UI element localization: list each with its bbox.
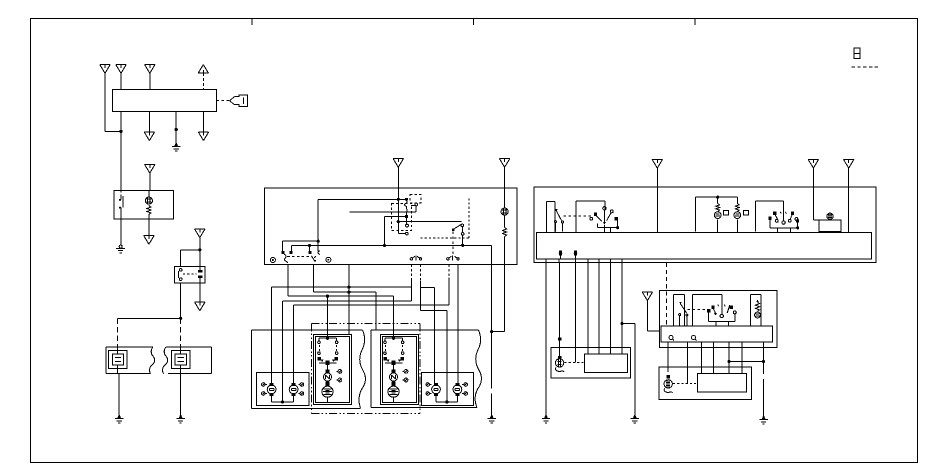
wire relay1 pin4 down bbox=[148, 219, 150, 236]
strip pin 2 bbox=[574, 250, 578, 259]
wire v-287.8 bbox=[287, 264, 289, 296]
cluster lamp bbox=[827, 213, 833, 219]
retract B wire bbox=[393, 365, 395, 371]
connector triangle T4 (up) bbox=[198, 65, 208, 74]
noise filter 2 box bbox=[162, 347, 211, 374]
contact arm A bbox=[281, 241, 283, 251]
wire relay2 pin4 down bbox=[199, 283, 201, 302]
side pin A2 bbox=[336, 378, 342, 382]
cluster2 sub-bus bbox=[770, 220, 799, 233]
wire w-575.5 bbox=[575, 263, 577, 363]
junction dot bbox=[347, 286, 350, 289]
retract A connector bbox=[326, 369, 330, 373]
indicator lamp 1 bbox=[270, 258, 275, 263]
noise filter 1 box bbox=[106, 347, 155, 374]
wire H2b bbox=[385, 215, 406, 217]
junction dot bbox=[620, 322, 623, 325]
wire w-610.5 bbox=[610, 263, 612, 354]
rr comp2 frame bbox=[693, 295, 722, 326]
headlamp bulb A1a bbox=[262, 383, 277, 396]
connector triangle T1 bbox=[100, 65, 110, 74]
contact square bbox=[405, 198, 408, 201]
wire V2 bbox=[384, 216, 386, 245]
retract relay box bbox=[659, 290, 777, 347]
switch1 dashed linkage bbox=[564, 215, 593, 217]
relay2 dashed linkage bbox=[183, 273, 197, 275]
junction dot bbox=[716, 196, 719, 199]
wire w-559.6 bbox=[559, 263, 561, 356]
keyhole pin 2 bbox=[692, 336, 697, 341]
lamp box A1 bbox=[257, 373, 309, 406]
wire w-701.4 bbox=[700, 347, 702, 373]
junction dot bbox=[397, 220, 400, 223]
beam lamp resistor bbox=[503, 215, 507, 264]
connector triangle T7 bbox=[145, 165, 155, 174]
relay2 contacts bbox=[179, 269, 182, 281]
wire T14 down bbox=[812, 168, 814, 220]
contact arm B bbox=[291, 245, 293, 251]
connector triangle T10 bbox=[195, 302, 205, 311]
comp3 frame bbox=[756, 201, 784, 232]
junction dot relay2 bbox=[198, 248, 201, 251]
wire V5 inside bbox=[491, 245, 493, 264]
wire T9 down bbox=[199, 238, 201, 267]
noise filter 1 inner bbox=[109, 347, 128, 374]
comp2 frame bbox=[576, 201, 605, 232]
rr lamp bbox=[755, 312, 761, 318]
ground G7 bbox=[631, 415, 639, 423]
sensor square 2 bbox=[743, 210, 748, 214]
noise filter bus bbox=[118, 317, 181, 319]
connector triangle T13 bbox=[652, 160, 662, 169]
switch arm E bbox=[455, 224, 464, 229]
connector triangle T14 bbox=[808, 160, 818, 169]
connector triangle T15 bbox=[844, 160, 854, 169]
retract shield bulb B bbox=[388, 384, 399, 397]
wire relay2 to bus bbox=[180, 283, 182, 318]
contact ring bbox=[406, 232, 409, 235]
relay2 capacitor bbox=[198, 266, 202, 283]
wire to boxB top bbox=[375, 292, 377, 330]
retract lamp N bbox=[324, 370, 332, 384]
retract relay B bbox=[384, 338, 405, 365]
motor box R inner bbox=[698, 374, 747, 393]
light switch cluster bbox=[590, 207, 618, 225]
dashed L-path bbox=[421, 198, 469, 238]
sensor square 1 bbox=[724, 210, 729, 214]
retract lamp H bbox=[390, 370, 398, 384]
motor L symbol bbox=[555, 356, 564, 372]
headlamp B outer box bbox=[371, 330, 481, 407]
wire to lampB1 bus bbox=[446, 310, 448, 402]
switch contact square bbox=[309, 251, 312, 254]
relay1 resistor wire bbox=[148, 215, 150, 220]
junction dot bbox=[326, 295, 329, 298]
wire pin5 down bbox=[148, 112, 150, 133]
connector triangle T6 bbox=[198, 132, 208, 141]
wire w-634.8 bbox=[634, 323, 636, 415]
wire H4 bus bbox=[292, 244, 492, 246]
row R1b bbox=[420, 287, 434, 289]
dashed linkage bbox=[287, 255, 309, 257]
wire T12 down bbox=[504, 167, 506, 188]
connector square bbox=[558, 337, 561, 340]
junction dot bbox=[445, 400, 448, 403]
junction dot bbox=[762, 360, 765, 363]
gauge frame bbox=[696, 197, 738, 232]
wire w-764.1 bbox=[763, 347, 765, 416]
motor box R bbox=[659, 367, 751, 400]
ignition switch box bbox=[113, 90, 217, 112]
retract unit B inner bbox=[383, 336, 417, 402]
turn switch cluster bbox=[769, 206, 800, 224]
wire v-457.8 bbox=[457, 264, 459, 385]
dashed wire v-420.4 bbox=[419, 264, 421, 281]
wire jog bbox=[729, 361, 764, 363]
wire to lampA1 bus bbox=[282, 301, 284, 402]
dashed box large bbox=[391, 204, 411, 231]
switch arm D bbox=[411, 203, 418, 212]
switch contact hook bbox=[318, 251, 320, 254]
wire jog bbox=[622, 322, 635, 324]
rr comp3 frame bbox=[751, 295, 761, 326]
rr switch cluster bbox=[707, 301, 736, 318]
wire T11 down bbox=[397, 167, 399, 188]
wire v-504.6 tail bbox=[490, 264, 505, 333]
wire w-599 bbox=[598, 263, 600, 354]
retract unit B outer bbox=[381, 334, 419, 404]
wire v-491.7 to ground bbox=[491, 264, 493, 415]
wire H1 bbox=[318, 198, 406, 200]
retract B connector bbox=[392, 369, 396, 373]
ground G8 bbox=[759, 416, 767, 424]
headlight switch box bbox=[265, 188, 517, 264]
wire w-687.7 bbox=[687, 347, 689, 383]
ground G3 bbox=[115, 415, 123, 423]
wire to lampB1a bbox=[434, 288, 436, 385]
rr resistor bbox=[756, 300, 760, 312]
relay1 coil lamp bbox=[145, 191, 152, 205]
wire v-420.4 lower bbox=[419, 281, 421, 310]
wire V4 bbox=[461, 227, 464, 246]
headlamp bulb B1b bbox=[453, 383, 468, 396]
wire jog relay2 bbox=[181, 249, 200, 251]
bottom contact pair 1 bbox=[410, 256, 422, 261]
frame tick 1 bbox=[251, 19, 253, 26]
row R2 bbox=[314, 291, 376, 293]
wire T16 down bbox=[647, 301, 659, 331]
wire T13 down bbox=[656, 168, 658, 232]
strip pin 1 bbox=[559, 250, 563, 259]
wire w-741.9 bbox=[741, 347, 743, 373]
dashed wire to filter2 bbox=[180, 318, 182, 347]
retract unit A outer bbox=[314, 334, 352, 404]
headlamp bulb B1a bbox=[426, 383, 440, 396]
dashed wire to key bbox=[217, 100, 230, 102]
wire H3 bbox=[282, 240, 318, 242]
switch contact squares bbox=[282, 251, 285, 254]
motor L dashed linkage bbox=[565, 361, 585, 363]
row R6 bbox=[420, 309, 446, 311]
wire filter1 to ground bbox=[118, 374, 120, 415]
junction dot bbox=[281, 400, 284, 403]
wire w-546 bbox=[545, 263, 547, 415]
retract unit A inner bbox=[316, 336, 350, 402]
wire jog to pin2 bbox=[105, 130, 121, 132]
junction dot bbox=[461, 244, 464, 247]
connector triangle T12 bbox=[499, 159, 509, 168]
row R5 bbox=[294, 304, 450, 306]
ground G4 bbox=[176, 415, 184, 423]
side pin B2 bbox=[402, 378, 408, 382]
retract B bottom wire bbox=[393, 398, 395, 403]
cluster outer box bbox=[534, 187, 876, 262]
ground G1 bbox=[172, 143, 180, 151]
junction dot bbox=[383, 244, 386, 247]
headlamp bulb A1b bbox=[289, 383, 304, 396]
keyhole pin 1 bbox=[669, 336, 674, 341]
row R3 bbox=[288, 295, 394, 297]
wire T3 to box bbox=[149, 73, 151, 89]
wire w-622 bbox=[621, 263, 623, 354]
dashed wire v-449.2 bbox=[448, 264, 450, 277]
headlamp A outer box bbox=[252, 330, 366, 408]
junction dot bbox=[347, 291, 350, 294]
wire H5 bbox=[398, 221, 461, 223]
retract relay A bbox=[318, 338, 339, 365]
switch arm low-beam bbox=[284, 254, 288, 263]
dashed wire T4 to box bbox=[202, 73, 204, 89]
dashed box small bbox=[410, 194, 421, 202]
side pin B1 bbox=[402, 370, 408, 374]
junction dot bbox=[317, 240, 320, 243]
wire v-449.2 lower bbox=[448, 278, 450, 305]
connector triangle T2 bbox=[116, 65, 126, 74]
wire v-411.3 lower bbox=[410, 280, 412, 301]
splice dot pin6 bbox=[175, 128, 178, 131]
rr dashed linkage bbox=[687, 309, 708, 311]
row R4 bbox=[283, 300, 412, 302]
frame tick 3 bbox=[694, 19, 696, 26]
motor box L bbox=[551, 348, 630, 378]
junction dot bbox=[727, 360, 730, 363]
strip cell ticks rr bbox=[667, 342, 669, 347]
connector triangle T9 bbox=[195, 229, 205, 238]
junction dot bbox=[119, 130, 122, 133]
dashed wire bbox=[452, 231, 454, 255]
wire filter2 to ground bbox=[180, 374, 182, 415]
wire pin7 down bbox=[203, 112, 205, 133]
junction dot bbox=[392, 337, 395, 340]
wire T2 to box bbox=[120, 73, 122, 89]
connector triangle T11 bbox=[393, 159, 403, 168]
wire relay2 pin1 bbox=[180, 250, 182, 266]
retract shield bulb A bbox=[322, 384, 333, 397]
wire w-713.6 bbox=[713, 347, 715, 373]
noise filter 2 inner bbox=[171, 347, 190, 374]
row R1 bbox=[271, 286, 411, 288]
dashed wire to filter1 bbox=[117, 318, 119, 347]
gauge coil 2 bbox=[734, 197, 741, 232]
wire to retractA bbox=[327, 296, 329, 338]
wire elbow bbox=[398, 233, 405, 235]
retract relay strip bbox=[661, 326, 772, 342]
dashed separator bbox=[665, 263, 667, 326]
bottom contact pair 2 bbox=[447, 256, 460, 261]
wire V3 from T11 bbox=[397, 188, 399, 233]
contact square right bbox=[452, 228, 455, 231]
connector triangle T16 bbox=[642, 292, 652, 301]
junction dot bus bbox=[179, 317, 182, 320]
legend dashed line bbox=[852, 66, 881, 68]
rr switch arm bbox=[679, 302, 688, 326]
switch arm high-beam bbox=[311, 256, 316, 263]
relay2 box bbox=[175, 266, 206, 283]
lamp A1 bus bbox=[272, 395, 294, 402]
headlight beam lamp bbox=[501, 188, 508, 215]
gauge coil 1 bbox=[714, 197, 721, 232]
screw ground G2 bbox=[116, 245, 125, 253]
indicator lamp 2 bbox=[326, 257, 331, 262]
motor R dashed linkage bbox=[673, 382, 698, 384]
wire v-309.5 bbox=[309, 245, 311, 251]
motor R symbol bbox=[664, 375, 673, 393]
cluster lamp box bbox=[813, 220, 841, 232]
wire to lampA1a bbox=[270, 287, 272, 385]
switch1 arm bbox=[554, 209, 563, 232]
ground G6 bbox=[542, 415, 550, 423]
frame tick 2 bbox=[473, 19, 475, 26]
retract A wire bbox=[327, 365, 329, 371]
wire to lampA1b bbox=[293, 305, 295, 385]
strip cell ticks bbox=[545, 259, 547, 263]
rr sub-bus bbox=[709, 312, 735, 326]
side pin A1 bbox=[336, 370, 342, 374]
connector triangle T8 bbox=[144, 236, 154, 245]
motor box L inner bbox=[585, 354, 628, 372]
relay1 box bbox=[114, 191, 174, 220]
wire to retractB bbox=[393, 296, 395, 338]
switch arm C bbox=[405, 201, 409, 228]
relay1 resistor bbox=[147, 206, 151, 215]
wire pin6 down bbox=[175, 112, 177, 144]
wire relay1 to ground bbox=[120, 219, 122, 245]
lamp box B1 bbox=[421, 373, 473, 406]
wire w-588 bbox=[587, 263, 589, 354]
lamp B1 bus bbox=[436, 395, 457, 402]
relay1 switch contact bbox=[119, 191, 123, 220]
retract A bottom wire bbox=[327, 398, 329, 403]
ignition key symbol bbox=[230, 95, 248, 107]
wire pin2 down to relay bbox=[120, 112, 122, 191]
wire T15 down bbox=[848, 168, 850, 232]
dashed wire v-411.3 bbox=[410, 264, 412, 280]
junction dot bbox=[308, 244, 311, 247]
connector triangle T5 bbox=[144, 132, 154, 141]
wire H2 bbox=[349, 211, 416, 213]
ground G5 bbox=[488, 415, 496, 423]
junction dot bbox=[326, 337, 329, 340]
wire v-348.9 bbox=[348, 264, 350, 334]
wire V1 bbox=[317, 199, 319, 251]
wire w-729 bbox=[728, 347, 730, 373]
legend connector symbol bbox=[854, 48, 860, 59]
wire v-313.5 bbox=[313, 264, 315, 292]
junction dot bbox=[397, 198, 400, 201]
wire w-668.2 bbox=[667, 347, 669, 372]
cluster sub-bus bbox=[597, 220, 619, 232]
wire T1 down bbox=[104, 73, 106, 131]
junction strip box bbox=[537, 233, 872, 260]
wire T7 to relay1 bbox=[149, 173, 151, 190]
dash-dot boundary bbox=[311, 323, 420, 413]
rr comp1 frame bbox=[673, 295, 684, 326]
connector triangle T3 bbox=[145, 65, 155, 74]
comp1 frame bbox=[547, 202, 556, 233]
